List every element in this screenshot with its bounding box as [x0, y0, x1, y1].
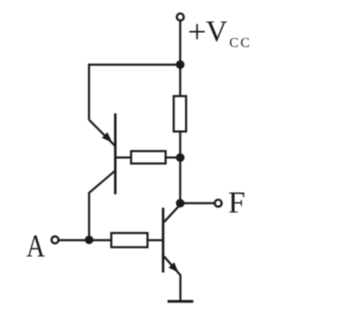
wire output to F — [180, 202, 215, 204]
wire Vcc rail middle — [179, 132, 181, 204]
svg-text:CC: CC — [229, 36, 251, 51]
wire R2 to rail — [166, 156, 180, 158]
wire A to R3 — [59, 239, 112, 241]
svg-text:+: + — [188, 15, 207, 51]
junction node R2-rail — [176, 153, 185, 162]
transistor Q2 emitter lead — [164, 257, 180, 276]
resistor R1 (vertical, collector load) — [174, 96, 186, 131]
svg-text:V: V — [206, 15, 228, 48]
junction node top — [176, 60, 185, 69]
terminal F — [215, 200, 222, 207]
transistor Q2 collector lead — [164, 205, 180, 223]
arrow Q1 emitter (PNP, into base) — [102, 132, 113, 143]
resistor R3 (input) — [111, 233, 147, 247]
junction node input A — [85, 236, 94, 245]
label +Vcc — [188, 15, 252, 51]
wire Vcc rail top — [179, 22, 181, 97]
wire R3 to Q2 base — [148, 239, 163, 241]
transistor Q1 base bar — [114, 113, 117, 194]
wire emitter to ground — [179, 274, 181, 301]
transistor Q1 base stub — [116, 156, 131, 158]
transistor Q1 collector lead — [89, 171, 115, 240]
wire left vertical to Q1 emitter — [88, 64, 90, 120]
wire top horizontal — [88, 64, 180, 66]
svg-text:F: F — [228, 185, 245, 220]
transistor Q1 emitter lead — [89, 120, 115, 146]
ground — [168, 300, 194, 303]
transistor Q2 base bar — [162, 208, 165, 273]
junction node output F — [176, 199, 185, 208]
svg-text:A: A — [26, 229, 45, 264]
resistor R2 (Q1 base to rail) — [131, 151, 166, 163]
terminal A — [52, 236, 59, 243]
arrow Q2 emitter (NPN, outward) — [169, 262, 179, 272]
terminal +Vcc — [177, 14, 184, 21]
